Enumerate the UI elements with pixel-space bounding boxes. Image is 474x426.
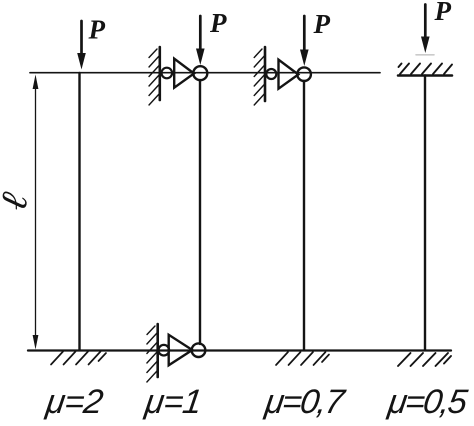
svg-text:ℓ: ℓ	[0, 188, 37, 214]
svg-text:μ=0,7: μ=0,7	[262, 383, 349, 421]
svg-text:P: P	[88, 15, 106, 45]
svg-text:μ=1: μ=1	[142, 383, 204, 421]
svg-text:μ=2: μ=2	[43, 383, 106, 421]
svg-text:P: P	[434, 0, 452, 26]
svg-text:μ=0,5: μ=0,5	[385, 383, 471, 421]
svg-text:P: P	[313, 9, 331, 39]
svg-text:P: P	[209, 8, 227, 38]
